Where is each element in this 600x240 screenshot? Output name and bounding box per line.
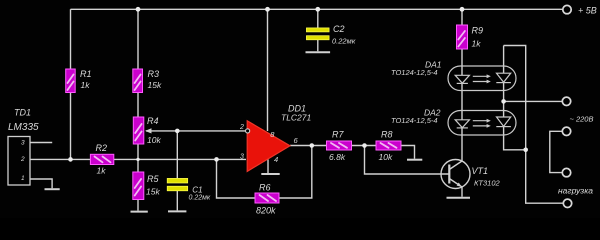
- svg-text:1k: 1k: [97, 166, 107, 176]
- svg-text:4: 4: [274, 155, 278, 164]
- svg-text:15k: 15k: [148, 80, 162, 90]
- svg-text:1k: 1k: [472, 39, 482, 49]
- svg-text:3: 3: [240, 154, 244, 161]
- svg-text:C2: C2: [333, 24, 345, 34]
- svg-text:КТ3102: КТ3102: [474, 178, 501, 187]
- svg-text:TO124-12,5-4: TO124-12,5-4: [391, 68, 438, 77]
- svg-text:R6: R6: [259, 183, 271, 193]
- svg-text:R7: R7: [332, 129, 344, 139]
- svg-text:3: 3: [21, 139, 25, 146]
- svg-text:1k: 1k: [81, 80, 91, 90]
- svg-text:R5: R5: [147, 174, 159, 184]
- svg-text:0.22мк: 0.22мк: [189, 194, 211, 201]
- svg-text:R8: R8: [381, 129, 393, 139]
- svg-text:15k: 15k: [146, 187, 160, 197]
- svg-text:+ 5В: + 5В: [578, 6, 597, 16]
- svg-text:TO124-12,5-4: TO124-12,5-4: [391, 116, 438, 125]
- svg-text:10k: 10k: [147, 135, 161, 145]
- svg-text:~ 220В: ~ 220В: [570, 115, 594, 124]
- svg-text:TLC271: TLC271: [281, 113, 312, 123]
- svg-text:2: 2: [239, 124, 244, 131]
- svg-text:нагрузка: нагрузка: [558, 186, 593, 196]
- svg-text:2: 2: [20, 156, 25, 163]
- svg-text:R1: R1: [80, 69, 92, 79]
- svg-text:R4: R4: [147, 116, 159, 126]
- svg-text:0.22мк: 0.22мк: [332, 37, 356, 46]
- svg-text:10k: 10k: [379, 152, 393, 162]
- svg-text:R3: R3: [148, 69, 160, 79]
- svg-text:TD1: TD1: [14, 108, 31, 118]
- svg-text:6.8k: 6.8k: [329, 152, 346, 162]
- svg-text:1: 1: [21, 175, 25, 182]
- svg-text:R2: R2: [96, 143, 108, 153]
- svg-text:LM335: LM335: [8, 122, 39, 133]
- svg-text:820k: 820k: [256, 206, 276, 216]
- svg-text:VT1: VT1: [472, 166, 489, 176]
- svg-text:R9: R9: [472, 26, 484, 36]
- svg-text:C1: C1: [192, 185, 202, 194]
